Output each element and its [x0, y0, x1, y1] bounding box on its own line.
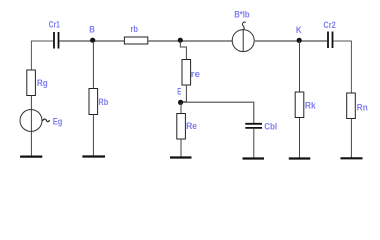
resistor Rn	[347, 93, 356, 119]
node B junction dot	[90, 38, 95, 43]
resistor Rk	[295, 92, 304, 118]
svg-text:Cbl: Cbl	[264, 121, 277, 131]
wire: jog from junction down to re	[180, 41, 186, 60]
wire: node B down to Rb	[92, 41, 94, 89]
resistor Rb	[89, 89, 98, 115]
svg-text:Rb: Rb	[98, 97, 108, 107]
ground below Re	[170, 156, 192, 158]
wire: node E to Cbl	[183, 102, 254, 123]
resistor Rg	[27, 70, 36, 96]
ground below Cbl	[243, 157, 265, 159]
node E junction dot	[178, 100, 183, 105]
svg-text:E: E	[177, 87, 181, 97]
node junction dot above re	[178, 38, 183, 43]
wire: re bottom jog to node E	[180, 85, 186, 102]
svg-text:K: K	[296, 25, 302, 35]
wire: Cr2 to Rn corner	[333, 41, 351, 93]
ground below Eg	[20, 156, 42, 158]
svg-text:Cr1: Cr1	[49, 19, 60, 29]
ground below Rb	[82, 155, 105, 157]
wire: rb to current source, through junction node	[148, 40, 232, 42]
wire: Re bottom to ground	[180, 139, 182, 157]
wire: Cr1 to rb through node B	[59, 40, 124, 42]
svg-text:Rg: Rg	[37, 78, 48, 88]
capacitor Cr1	[54, 32, 59, 49]
ground below Rn	[341, 157, 363, 159]
ground below Rk	[289, 157, 311, 159]
current source U1 B*Ib	[232, 22, 254, 52]
svg-text:re: re	[191, 69, 200, 79]
wire: current source to Cr2 through node K	[254, 40, 327, 42]
capacitor Cr2	[328, 32, 333, 49]
wire: node K down to Rk	[299, 41, 301, 92]
svg-text:B*Ib: B*Ib	[234, 10, 250, 20]
wire: Rg bottom through Eg to ground	[30, 96, 32, 157]
resistor rb	[124, 37, 147, 44]
svg-text:Rk: Rk	[305, 100, 317, 110]
node K junction dot	[297, 38, 302, 43]
svg-text:Rn: Rn	[357, 102, 368, 112]
svg-text:Cr2: Cr2	[323, 20, 335, 30]
svg-text:B: B	[89, 24, 95, 34]
wire: Cbl bottom to ground	[253, 129, 255, 159]
capacitor Cbl	[245, 124, 262, 128]
tilde sine mark of Eg	[43, 119, 50, 122]
svg-text:Eg: Eg	[53, 116, 63, 126]
svg-text:rb: rb	[131, 24, 139, 34]
wire: Rk bottom to ground	[299, 118, 301, 159]
svg-text:Re: Re	[186, 121, 197, 131]
resistor re	[182, 60, 191, 86]
resistor Re	[177, 114, 186, 140]
wire: Rn bottom to ground	[350, 119, 352, 159]
source Eg circle	[20, 110, 42, 132]
wire: Rb bottom to ground	[92, 115, 94, 157]
wire: node E down to Re	[180, 102, 182, 113]
wire: top-left corner from Eg branch to Cr1	[31, 41, 53, 70]
